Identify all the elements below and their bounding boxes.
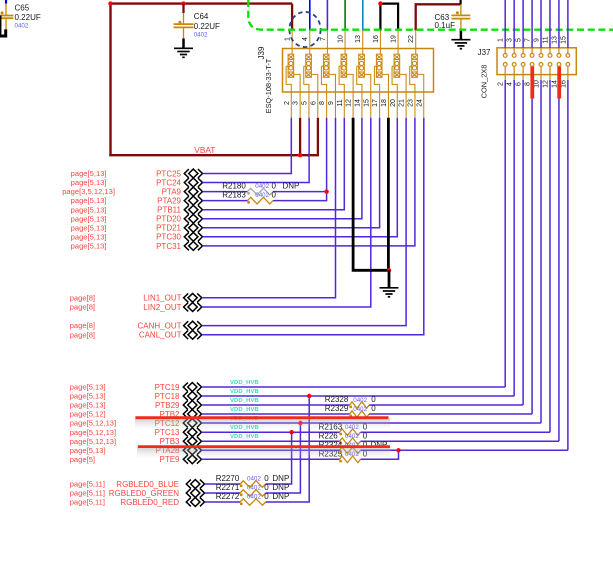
wire J37 pin 3 up — [513, 0, 515, 48]
svg-text:1: 1 — [498, 38, 505, 42]
svg-text:9: 9 — [328, 101, 335, 105]
svg-text:24: 24 — [416, 99, 423, 107]
wire J39 pin6 to VBAT — [317, 118, 319, 157]
wire PTC31 — [203, 118, 415, 246]
wire R2180 to J39 pin8 — [273, 118, 327, 192]
junction C64 tap — [181, 1, 185, 5]
svg-text:0402: 0402 — [247, 494, 261, 501]
svg-text:17: 17 — [372, 99, 379, 107]
wire J39 pin7 (violet) — [326, 0, 328, 31]
off-page connector LIN2_OUT — [184, 303, 202, 312]
junction top-left corner — [108, 1, 112, 5]
svg-text:VDD_HVB: VDD_HVB — [230, 434, 259, 440]
J39 section 3 contacts — [321, 30, 335, 118]
svg-text:16: 16 — [373, 35, 380, 43]
svg-text:DNP: DNP — [272, 474, 289, 483]
J37 pin 7/8 contacts — [530, 48, 534, 80]
svg-text:PTA29: PTA29 — [157, 197, 181, 206]
wire C65 bottom (black) — [0, 29, 6, 36]
svg-text:page[5]: page[5] — [70, 455, 95, 464]
off-page connector CANH_OUT — [184, 321, 202, 330]
connector J39 body — [283, 49, 434, 93]
wire J37 pin 16 down — [567, 80, 569, 450]
off-page connector PTB11 — [184, 205, 202, 214]
wire PTC19 — [202, 386, 506, 388]
wire PTB29 left — [202, 404, 350, 406]
J39 section 2 contacts — [304, 30, 318, 118]
wire J37 pin 1 up — [504, 0, 506, 48]
wire C65 top lead (blue) — [5, 0, 7, 4]
svg-text:R2183: R2183 — [222, 190, 246, 199]
R2328 labels — [325, 395, 377, 404]
wire J37 pin 2 down — [504, 80, 506, 387]
J37 pin 3/4 contacts — [512, 48, 516, 80]
svg-text:2: 2 — [284, 101, 291, 105]
off-page connector PTB2 — [183, 410, 201, 419]
J37 pin 9/10 contacts — [539, 48, 543, 80]
junction VBAT pin3 — [298, 153, 302, 157]
R2180 labels — [222, 181, 299, 190]
annotation dashed ellipse over J39 pins 4-7 — [289, 12, 320, 47]
J39 section 6 contacts — [374, 30, 388, 118]
wire VBAT left vertical — [109, 4, 111, 157]
wire J37 pin 7 up — [531, 0, 533, 48]
svg-text:RGBLED0_BLUE: RGBLED0_BLUE — [116, 480, 179, 489]
svg-text:page[5,13]: page[5,13] — [70, 446, 106, 455]
wire RGBLED0_GREEN left — [205, 492, 241, 494]
connector J37 body — [497, 48, 576, 75]
svg-text:12: 12 — [346, 99, 353, 107]
svg-text:10: 10 — [533, 80, 540, 88]
svg-text:22: 22 — [408, 35, 415, 43]
svg-text:PTB11: PTB11 — [157, 206, 181, 215]
J39 section 4 contacts — [339, 30, 353, 118]
R2324 labels — [319, 440, 388, 449]
wire J37 pin 9 up — [540, 0, 542, 48]
wire PTA28 left — [202, 449, 340, 451]
wire PTB11 — [203, 118, 345, 210]
svg-text:0402: 0402 — [345, 433, 359, 440]
svg-text:R2180: R2180 — [222, 181, 246, 190]
svg-text:RGBLED0_GREEN: RGBLED0_GREEN — [109, 489, 179, 498]
R2270 labels — [216, 474, 290, 483]
svg-text:0: 0 — [371, 395, 376, 404]
J39 section 1 contacts — [286, 30, 300, 118]
wire RGBLED0_GREEN to PT net — [266, 423, 301, 493]
wire RGBLED0_RED to PT net — [266, 396, 310, 502]
svg-text:page[8]: page[8] — [70, 293, 95, 302]
svg-text:PTD20: PTD20 — [156, 215, 181, 224]
svg-text:page[8]: page[8] — [70, 330, 95, 339]
off-page connector PTC13 — [183, 428, 201, 437]
svg-text:page[5,11]: page[5,11] — [70, 489, 105, 498]
wire CANL_OUT — [202, 118, 424, 335]
wire CANH_OUT — [202, 118, 406, 326]
off-page connector PTC19 — [183, 383, 201, 392]
svg-text:3: 3 — [507, 38, 514, 42]
wire LIN2_OUT — [202, 118, 371, 307]
svg-text:CANL_OUT: CANL_OUT — [139, 331, 182, 340]
wire left-edge stub — [0, 16, 2, 37]
junction PTA28/PTE9 — [396, 448, 400, 452]
svg-text:0402: 0402 — [194, 32, 208, 39]
svg-text:J37: J37 — [478, 48, 491, 57]
R2325 labels — [319, 449, 368, 458]
svg-text:9: 9 — [533, 38, 540, 42]
svg-text:0: 0 — [264, 474, 269, 483]
svg-text:page[8]: page[8] — [70, 321, 95, 330]
off-page connector PTC31 — [184, 242, 202, 251]
R2183 labels — [222, 190, 276, 199]
wire PTC13 right — [361, 431, 551, 433]
svg-text:15: 15 — [560, 36, 567, 44]
wire J39 pin1 (maroon) — [291, 4, 293, 31]
resistor R226 — [339, 438, 360, 445]
svg-text:0402: 0402 — [15, 23, 29, 30]
svg-text:11: 11 — [542, 36, 549, 43]
svg-text:2: 2 — [498, 82, 505, 86]
capacitor C64 — [174, 4, 194, 39]
svg-text:6: 6 — [310, 101, 317, 105]
ground C64 — [174, 39, 193, 58]
svg-text:PTA9: PTA9 — [162, 188, 182, 197]
svg-text:PTC24: PTC24 — [156, 178, 181, 187]
svg-text:page[5,12,13]: page[5,12,13] — [70, 428, 116, 437]
svg-text:LIN2_OUT: LIN2_OUT — [143, 303, 181, 312]
svg-text:R2328: R2328 — [325, 395, 349, 404]
wire C63 top stub (black) — [460, 0, 462, 4]
svg-text:RGBLED0_RED: RGBLED0_RED — [120, 498, 179, 507]
svg-text:ESQ-108-33-T-T: ESQ-108-33-T-T — [264, 58, 273, 113]
off-page connector PTA9 — [184, 187, 202, 196]
wire PTC13 left — [202, 431, 340, 433]
wire J37 pin 10 down — [540, 80, 542, 423]
wire PTB2 right — [369, 413, 532, 415]
svg-text:J39: J39 — [257, 46, 266, 59]
svg-text:page[5,13]: page[5,13] — [70, 392, 106, 401]
svg-text:0: 0 — [272, 190, 277, 199]
svg-text:0402: 0402 — [247, 476, 261, 483]
svg-text:PTB3: PTB3 — [159, 437, 180, 446]
wire J39 pin16/pin19 (black) — [380, 4, 398, 31]
capacitor C63 — [452, 4, 471, 29]
svg-text:5: 5 — [516, 38, 523, 42]
wire J37 pin 15 up — [567, 0, 569, 48]
resistor R2328 — [349, 402, 369, 409]
wire green dashed boundary — [248, 0, 613, 30]
off-page connector PTC25 — [184, 169, 202, 178]
svg-text:R2271: R2271 — [216, 483, 240, 492]
wire RGBLED0_RED left — [205, 501, 241, 503]
wire J39 pin3 to VBAT — [299, 118, 301, 157]
svg-text:PTD21: PTD21 — [156, 224, 181, 233]
capacitor C65 — [0, 4, 13, 30]
R2271 labels — [216, 483, 290, 492]
resistor R2325 — [339, 456, 360, 463]
svg-text:0402: 0402 — [255, 183, 269, 190]
svg-text:0: 0 — [371, 404, 376, 413]
svg-text:13: 13 — [355, 35, 362, 43]
wire J37 pin 5 up — [522, 0, 524, 48]
junction R2271 — [298, 421, 302, 425]
annotation red bar J37 pin8 — [530, 67, 534, 99]
resistor R2272 (DNP) — [240, 499, 266, 506]
resistor R2271 (DNP) — [240, 490, 266, 497]
wire VBAT top rail — [109, 2, 292, 4]
svg-text:0402: 0402 — [247, 485, 261, 492]
svg-text:page[5,13]: page[5,13] — [70, 383, 106, 392]
resistor R2324 — [339, 447, 360, 454]
ground C63 — [451, 30, 470, 49]
annotation red bar PTB2 — [135, 416, 388, 419]
wire J39 pin13 (light blue) — [362, 0, 364, 31]
annotation shadow under bar1 — [135, 419, 390, 430]
off-page connector RGBLED0_GREEN — [186, 489, 204, 498]
svg-text:page[5,12]: page[5,12] — [70, 410, 106, 419]
svg-text:14: 14 — [355, 99, 362, 107]
wire J37 pin 8 down — [531, 80, 533, 414]
svg-text:page[5,11]: page[5,11] — [70, 480, 105, 489]
wire J39 pin22 (maroon) — [416, 4, 461, 30]
svg-text:13: 13 — [551, 36, 558, 44]
annotation shadow under bar2 — [137, 448, 390, 459]
resistor R2183 — [247, 197, 273, 204]
R2329 labels — [325, 404, 377, 413]
svg-text:21: 21 — [399, 99, 406, 107]
wire PTC24 — [203, 118, 310, 183]
wire VBAT horizontal — [109, 154, 318, 156]
R226 labels — [319, 431, 368, 440]
wire PTA29 to R2183 — [203, 200, 248, 202]
svg-text:R2329: R2329 — [325, 404, 349, 413]
wire PTD20 — [203, 118, 362, 219]
svg-text:16: 16 — [560, 80, 567, 88]
junction ground net — [387, 268, 391, 272]
wire PTC18 — [202, 395, 515, 397]
svg-text:12: 12 — [542, 80, 549, 88]
wire PTB2 left — [202, 413, 350, 415]
svg-text:DNP: DNP — [272, 492, 289, 501]
J37 pin 15/16 contacts — [566, 48, 570, 80]
J39 section 7 contacts — [392, 30, 406, 118]
svg-text:0402: 0402 — [353, 397, 367, 404]
off-page connector PTB29 — [183, 401, 201, 410]
resistor R2270 (DNP) — [240, 481, 266, 488]
wire PTC30 — [203, 118, 398, 237]
svg-text:page[8]: page[8] — [70, 303, 95, 312]
svg-text:4: 4 — [302, 37, 309, 41]
svg-text:LIN1_OUT: LIN1_OUT — [143, 294, 181, 303]
svg-text:8: 8 — [319, 101, 326, 105]
junction PTA9 net — [324, 189, 328, 193]
wire J39 pin4 (blue) — [309, 0, 311, 31]
svg-text:page[5,13]: page[5,13] — [71, 178, 107, 187]
ground J39 — [380, 270, 399, 297]
svg-text:0402: 0402 — [255, 192, 269, 199]
wire PTC25 — [203, 118, 292, 174]
off-page connector PTA28 — [183, 446, 201, 455]
off-page connector PTE9 — [183, 455, 201, 464]
resistor R2329 — [349, 411, 369, 418]
svg-text:PTC30: PTC30 — [156, 233, 181, 242]
svg-text:5: 5 — [302, 101, 309, 105]
wire J37 pin 12 down — [549, 80, 551, 432]
J37 pin 5/6 contacts — [521, 48, 525, 80]
J37 pin 1/2 contacts — [503, 48, 507, 80]
wire R2183 to junction — [273, 192, 327, 201]
off-page connector RGBLED0_RED — [186, 498, 204, 507]
off-page connector PTC12 — [183, 419, 201, 428]
wire J37 pin 14 down — [558, 80, 560, 441]
svg-text:page[5,12,13]: page[5,12,13] — [70, 437, 116, 446]
svg-text:page[5,13]: page[5,13] — [71, 223, 107, 232]
wire PTA28 right — [361, 449, 568, 451]
svg-text:0: 0 — [363, 431, 368, 440]
svg-text:VDD_HVB: VDD_HVB — [230, 398, 259, 404]
off-page connector PTC24 — [184, 178, 202, 187]
svg-text:VDD_HVB: VDD_HVB — [230, 407, 259, 413]
junction pin16 rail — [378, 1, 382, 5]
svg-text:CON_2X8: CON_2X8 — [479, 65, 488, 99]
svg-text:DNP: DNP — [283, 181, 300, 190]
wire J37 pin 11 up — [549, 0, 551, 48]
wire J37 pin 6 down — [522, 80, 524, 405]
off-page connector LIN1_OUT — [184, 293, 202, 302]
svg-text:14: 14 — [551, 80, 558, 88]
svg-text:7: 7 — [320, 37, 327, 41]
svg-text:VDD_HVB: VDD_HVB — [230, 380, 259, 386]
J39 section 8 contacts — [410, 30, 424, 118]
svg-text:PTC25: PTC25 — [156, 169, 181, 178]
svg-text:3: 3 — [293, 101, 300, 105]
wire RGBLED0_BLUE left — [205, 483, 241, 485]
svg-text:4: 4 — [507, 82, 514, 86]
svg-text:C64: C64 — [194, 12, 209, 21]
svg-text:19: 19 — [390, 35, 397, 43]
off-page connector PTD20 — [184, 214, 202, 223]
svg-text:VDD_HVB: VDD_HVB — [230, 389, 259, 395]
wire PTB29 right — [369, 404, 523, 406]
svg-text:0.22UF: 0.22UF — [194, 22, 220, 31]
svg-text:page[5,13]: page[5,13] — [71, 196, 107, 205]
svg-text:R226: R226 — [319, 431, 339, 440]
svg-text:0: 0 — [272, 181, 277, 190]
svg-text:0.22UF: 0.22UF — [15, 13, 41, 22]
C65 value labels — [15, 4, 41, 30]
junction R2272 — [307, 394, 311, 398]
wire PTE9 left — [202, 458, 340, 460]
svg-text:PTC19: PTC19 — [155, 383, 180, 392]
off-page connector PTC18 — [183, 392, 201, 401]
svg-text:PTB29: PTB29 — [155, 401, 180, 410]
J39 section 5 contacts — [357, 30, 371, 118]
wire LIN1_OUT — [202, 118, 336, 298]
C64 value labels — [194, 12, 220, 39]
svg-text:6: 6 — [516, 82, 523, 86]
svg-text:PTC18: PTC18 — [155, 392, 180, 401]
C63 value labels — [435, 13, 456, 30]
svg-text:10: 10 — [337, 35, 344, 43]
svg-text:18: 18 — [381, 99, 388, 107]
off-page connector PTC30 — [184, 232, 202, 241]
R2272 labels — [216, 492, 290, 501]
wire PTB3 left — [202, 440, 340, 442]
wire J39 pin12 to ground — [353, 118, 389, 270]
svg-text:23: 23 — [408, 99, 415, 107]
junction R2270 — [289, 430, 293, 434]
svg-text:11: 11 — [337, 99, 344, 106]
svg-text:0402: 0402 — [353, 406, 367, 413]
annotation red bar PTA28 — [138, 445, 390, 448]
svg-text:page[5,13]: page[5,13] — [71, 242, 107, 251]
wire PTB3 right — [361, 440, 560, 442]
off-page connector CANL_OUT — [184, 330, 202, 339]
wire J37 pin 13 up — [558, 0, 560, 48]
svg-text:page[5,11]: page[5,11] — [70, 498, 105, 507]
svg-text:page[5,12,13]: page[5,12,13] — [70, 419, 116, 428]
svg-text:0: 0 — [264, 483, 269, 492]
J37 pin 11/12 contacts — [548, 48, 552, 80]
wire RGBLED0_BLUE to PT net — [266, 432, 292, 484]
off-page connector PTD21 — [184, 223, 202, 232]
resistor R2180 (DNP) — [247, 188, 273, 195]
svg-text:15: 15 — [363, 99, 370, 107]
wire PTE9 to PTA28 junction — [361, 450, 399, 459]
R2163 labels — [319, 422, 368, 431]
off-page connector PTB3 — [183, 437, 201, 446]
J37 pin 13/14 contacts — [557, 48, 561, 80]
svg-text:R2272: R2272 — [216, 492, 240, 501]
wire PTA9 to R2180 — [203, 191, 248, 193]
svg-text:page[5,13]: page[5,13] — [70, 401, 106, 410]
svg-text:7: 7 — [524, 38, 531, 42]
svg-text:PTC31: PTC31 — [156, 242, 181, 251]
annotation red bar J37 pin14 — [557, 67, 561, 99]
svg-text:20: 20 — [390, 99, 397, 107]
off-page connector PTA29 — [184, 196, 202, 205]
svg-text:page[5,13]: page[5,13] — [71, 214, 107, 223]
wire J39 pin18 to ground — [387, 118, 390, 270]
svg-text:C65: C65 — [15, 4, 30, 13]
resistor R2163 — [339, 429, 360, 436]
wire PTD21 — [203, 118, 380, 228]
wire J37 pin 4 down — [513, 80, 515, 396]
svg-text:VBAT: VBAT — [194, 145, 215, 155]
svg-text:0: 0 — [264, 492, 269, 501]
svg-text:CANH_OUT: CANH_OUT — [137, 322, 181, 331]
off-page connector RGBLED0_BLUE — [186, 480, 204, 489]
svg-text:page[5,13]: page[5,13] — [71, 205, 107, 214]
svg-text:page[5,13]: page[5,13] — [71, 169, 107, 178]
wire J39 pin10 (green) — [344, 0, 346, 31]
svg-text:R2270: R2270 — [216, 474, 240, 483]
svg-text:page[5,13]: page[5,13] — [71, 232, 107, 241]
svg-text:page[3,5,12,13]: page[3,5,12,13] — [62, 187, 115, 196]
svg-text:DNP: DNP — [272, 483, 289, 492]
wire PTC12 — [202, 422, 542, 424]
